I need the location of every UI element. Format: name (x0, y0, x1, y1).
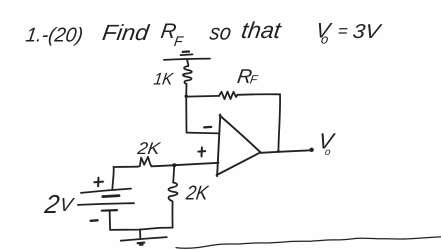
wire down to battery (112, 167, 113, 189)
svg-text:1.-(20): 1.-(20) (24, 25, 84, 47)
label 1K (152, 70, 175, 89)
plus sign (198, 147, 205, 156)
ground (bottom) (121, 229, 167, 245)
node junction (non-inverting) (172, 163, 176, 167)
svg-text:o: o (320, 32, 329, 47)
svg-text:Find: Find (101, 20, 151, 45)
ground (top, above 1K) (164, 52, 210, 60)
bottom wire (110, 228, 173, 230)
plus sign battery (94, 178, 103, 187)
wire 1K to node (185, 84, 187, 96)
wire to inverting input (187, 132, 220, 135)
title text "1.-(20)" (24, 25, 84, 47)
svg-text:1K: 1K (152, 70, 175, 89)
output terminal dot (309, 148, 313, 152)
wire shunt to node (173, 167, 174, 183)
wire ground to 1K (187, 59, 188, 66)
label 2K (shunt) (184, 183, 211, 205)
wire RF to corner (238, 93, 281, 96)
paper tear edge (176, 237, 441, 248)
svg-text:that: that (240, 17, 284, 43)
wire node down (185, 96, 187, 132)
svg-text:so: so (208, 20, 232, 45)
svg-text:F: F (249, 73, 259, 87)
label Vo (317, 129, 337, 158)
feedback junction dot (277, 150, 280, 153)
title text "Find" (101, 20, 151, 45)
svg-text:2K: 2K (184, 183, 211, 205)
title text "that" (240, 17, 284, 43)
minus sign battery (91, 219, 98, 222)
title text "so" (208, 20, 232, 45)
wire feedback down (278, 94, 280, 151)
label 2V (42, 189, 76, 219)
minus sign (204, 126, 211, 129)
op-amp U1 (217, 114, 261, 176)
wire left to 2K input resistor (114, 166, 137, 168)
svg-text:=: = (336, 22, 349, 41)
wire node to plus input (174, 163, 218, 165)
node junction (inverting) (185, 95, 188, 98)
resistor 2K (shunt) (168, 183, 177, 202)
svg-text:V: V (58, 195, 76, 216)
output wire (261, 150, 311, 153)
resistor 1K (183, 66, 192, 84)
wire up to 2K shunt (171, 202, 173, 228)
resistor RF (219, 92, 238, 100)
title text "RF" (159, 20, 185, 49)
svg-text:F: F (173, 33, 185, 49)
battery V1 2V (78, 189, 134, 230)
svg-text:2K: 2K (135, 139, 162, 158)
label RF (236, 66, 259, 88)
wire 2K to node (152, 165, 173, 166)
wire node to RF (186, 95, 219, 98)
svg-text:3V: 3V (351, 21, 383, 43)
label 2K (input) (135, 139, 162, 158)
resistor 2K (input) (137, 157, 152, 167)
title text "Vo = 3V" (314, 20, 383, 47)
